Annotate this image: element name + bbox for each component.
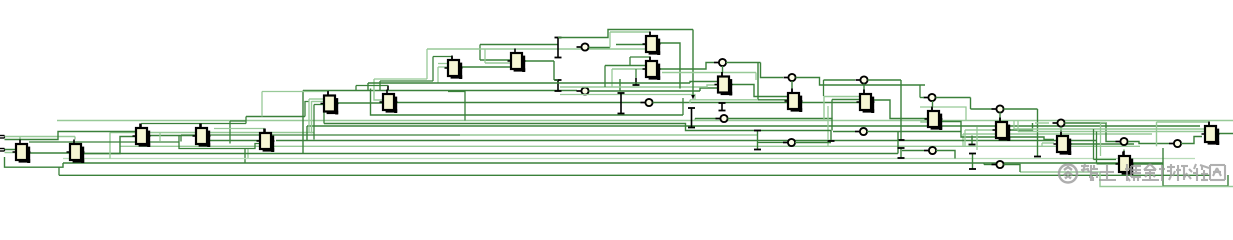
inverter bubble b16	[992, 161, 1004, 168]
wire y44 to tbar	[480, 44, 558, 46]
input terminal group A (left edge)	[0, 136, 5, 139]
wire y90 to b2	[303, 90, 577, 92]
wire y107 light	[920, 107, 966, 121]
wire b14 to C19	[1181, 137, 1202, 144]
riser x620	[619, 79, 621, 91]
wire C1 input a	[5, 149, 17, 151]
wire C3 out to C4	[150, 135, 196, 137]
riser x324	[323, 111, 325, 124]
pin C11 top	[649, 57, 651, 61]
wire C7 pin run	[356, 85, 388, 87]
wire to C2 top	[5, 136, 76, 138]
wire C7 out long y102	[397, 102, 641, 104]
wire y142 left	[29, 141, 179, 143]
component U4	[193, 124, 211, 148]
wire drop to b5	[761, 63, 784, 78]
wire C17 out	[1071, 143, 1134, 145]
pin C6 top	[327, 92, 329, 96]
inverter bubble b14	[1169, 140, 1181, 147]
wire C12 in1	[690, 82, 718, 84]
wire C19 in light a	[1014, 128, 1205, 130]
inverter bubble b12	[1053, 119, 1065, 126]
terminator T8	[719, 103, 726, 111]
inverter bubble b1	[577, 43, 589, 50]
wire C8 pin run	[433, 56, 452, 58]
wire into b6	[824, 79, 856, 81]
wire b5 right	[796, 78, 926, 86]
wire riser x110	[109, 133, 111, 159]
wire C9 in2	[485, 62, 511, 64]
wire b9 out	[867, 131, 961, 133]
component U16	[993, 118, 1011, 142]
riser x380	[379, 81, 381, 91]
terminator v14	[1034, 109, 1041, 157]
wire C1 out to C2	[28, 152, 70, 154]
wire C11 pin run	[630, 56, 650, 58]
inverter bubble b5	[784, 74, 796, 81]
bus wire y135 dark	[181, 134, 460, 136]
riser x965	[964, 130, 966, 146]
wire y83 long	[368, 82, 690, 84]
pin C7 top	[387, 86, 389, 91]
stair corner x305	[305, 102, 309, 117]
pin C18 top	[1123, 151, 1125, 156]
wire C6 in3	[314, 104, 324, 106]
pin C13 top	[791, 89, 793, 94]
component U7	[380, 90, 398, 114]
terminator v8	[754, 131, 761, 150]
wire y146 light long	[120, 145, 1140, 147]
riser x230	[229, 121, 231, 144]
wire b8 out	[795, 142, 831, 144]
drop b12 to C17 pin	[1060, 127, 1062, 132]
wire C14 in2	[832, 99, 860, 101]
terminator v11	[898, 148, 905, 158]
component U18	[1116, 152, 1134, 176]
wire y115 long	[371, 89, 684, 116]
riser x630	[629, 57, 631, 66]
riser x690 light	[689, 100, 691, 103]
wire b2 to C12 in3	[700, 88, 718, 91]
wire y99 light	[690, 99, 758, 101]
terminator T7	[618, 93, 625, 114]
riser x1156	[1156, 122, 1158, 146]
pin C4 top	[200, 124, 202, 129]
wire C6 out to C7	[337, 102, 383, 104]
stair riser x311	[311, 101, 313, 134]
wire C2 out to C3	[82, 137, 136, 154]
watermark juejin logo	[1059, 165, 1077, 183]
component U12	[715, 72, 733, 96]
riser x480	[479, 45, 481, 61]
wire b6 out	[868, 79, 902, 81]
wire into b16	[984, 164, 992, 166]
riser x307	[306, 126, 308, 141]
pin C12 top	[721, 72, 723, 77]
component U10	[643, 32, 661, 56]
wire b13 to b14	[1128, 142, 1169, 144]
bus wire y132 light	[110, 132, 314, 134]
wire b1 out	[589, 47, 611, 49]
wire y121 short	[230, 120, 246, 122]
inverter bubble b10	[924, 94, 936, 101]
wire C8 in2	[438, 66, 448, 68]
drop x1163	[1162, 148, 1164, 186]
pin C16 top	[999, 118, 1001, 123]
wire C7 in2	[374, 79, 383, 100]
riser x828	[827, 106, 829, 146]
wire C16 out up	[1010, 123, 1033, 130]
terminator v12	[969, 136, 976, 145]
terminator T5	[633, 78, 640, 85]
wire C14 in light	[824, 96, 860, 98]
wire C6 in2	[312, 101, 325, 103]
wire b2 out	[589, 90, 701, 92]
terminator T2	[555, 80, 562, 91]
wire riser x356	[355, 86, 357, 91]
riser x756	[755, 73, 757, 81]
wire to C3 input	[5, 132, 137, 140]
inverter bubble b9	[855, 128, 867, 135]
inverter bubble b6	[856, 76, 868, 83]
riser x977	[976, 127, 978, 151]
wire C15 out to C17	[942, 122, 1054, 140]
riser x433	[432, 57, 434, 82]
component U9	[508, 49, 526, 73]
terminator v10	[898, 80, 905, 140]
terminator T4	[688, 108, 695, 128]
drop x1100 light	[1101, 123, 1107, 157]
wire y81	[380, 80, 433, 82]
riser x438	[437, 67, 439, 83]
wire C10 pin run	[610, 31, 650, 33]
wire y72 light	[662, 72, 756, 74]
wire C19 out	[1218, 133, 1233, 135]
wire into b9	[833, 131, 855, 133]
drop C9 out	[553, 61, 555, 80]
drop b5 to C13 pin	[791, 81, 793, 89]
riser x262	[261, 92, 263, 117]
wire x465 drop	[448, 92, 465, 121]
wire C18 in1	[1094, 159, 1117, 161]
pin C5 top	[264, 129, 266, 134]
stair riser x314	[313, 105, 315, 140]
riser x485	[484, 49, 486, 63]
wire y134 light right	[963, 133, 1152, 135]
wire y94 light	[560, 95, 695, 100]
component U2	[67, 140, 85, 164]
wire C11 in1	[605, 65, 646, 67]
wire C11 in2	[612, 68, 646, 70]
wire C9 out	[525, 60, 554, 62]
inverter bubble b13	[1116, 138, 1128, 145]
wire y49 light to C10	[427, 48, 646, 50]
wire C8 in1	[438, 63, 448, 65]
wire C17 in2	[1042, 142, 1054, 144]
riser x1014	[1013, 121, 1015, 130]
stair riser x303	[302, 91, 304, 154]
inverter bubble b11	[992, 105, 1004, 112]
link b16	[983, 163, 985, 165]
tee x59 to y175	[58, 167, 60, 175]
watermark text strokes	[1081, 164, 1225, 181]
wire bottom right	[1163, 175, 1228, 186]
drop x1096	[1096, 132, 1098, 164]
pin C17 top	[1060, 132, 1062, 137]
wire C18 out	[1133, 163, 1163, 165]
riser x245	[244, 149, 246, 164]
wire C1 input b	[5, 152, 17, 154]
wire C9 in1	[480, 59, 511, 61]
riser x427	[426, 49, 428, 79]
riser x824 light	[823, 96, 825, 121]
drop b10 to C15 pin	[932, 101, 934, 107]
jog x695	[694, 119, 696, 121]
wire b11 out	[1004, 108, 1038, 110]
bus wire y175 dark	[59, 174, 1210, 176]
wire into b11	[971, 108, 992, 110]
wire b16 out	[1004, 165, 1021, 173]
wire C10 in2	[616, 44, 646, 46]
wire C18 in2	[1097, 163, 1117, 165]
component U1	[13, 140, 31, 164]
wire y172 light	[1020, 171, 1100, 173]
drop b10 chain	[970, 98, 972, 110]
component U11	[643, 57, 661, 81]
riser x605	[604, 66, 606, 88]
wire b7 out	[728, 119, 833, 131]
wire y79 light	[374, 78, 427, 80]
wire into b15	[902, 150, 924, 152]
wire C6 pin run	[262, 91, 328, 93]
component U14	[857, 90, 875, 114]
bus wire y158 faint	[63, 158, 1195, 160]
pin C19 top	[1208, 122, 1210, 126]
pin C8 top	[451, 57, 453, 61]
terminator v9	[828, 131, 835, 142]
wire C5 pin run	[214, 128, 265, 130]
wire C6 in1	[309, 98, 324, 100]
terminator v13	[969, 154, 976, 170]
wire C3 pin run	[141, 123, 246, 125]
riser x610	[609, 32, 611, 48]
riser x368	[367, 83, 369, 91]
inverter bubble b2	[577, 87, 589, 94]
inverter bubble b7	[716, 115, 728, 122]
bus wire y126 dark	[307, 125, 1200, 127]
drop b3 to C12 pin	[722, 66, 724, 72]
wire drop C4 pin	[245, 117, 247, 124]
link T2	[554, 79, 558, 81]
component U13	[785, 89, 803, 113]
stub above T5	[635, 69, 637, 78]
arrow terminator x693	[691, 95, 695, 100]
wire into b10	[920, 97, 924, 99]
component U5	[257, 129, 275, 153]
wire C4 out to C5	[210, 140, 260, 142]
drop x898	[897, 132, 899, 154]
wire y85 light to C12	[560, 85, 718, 87]
bus wire y135 light part	[460, 134, 758, 136]
riser x823	[823, 80, 825, 96]
riser x612	[611, 69, 613, 87]
wire C15 in2 jog	[921, 121, 928, 123]
wire into b12	[1035, 122, 1049, 124]
wire C13 out to C14	[802, 102, 860, 104]
wire y116 to stair	[246, 116, 305, 118]
drop b13	[1123, 150, 1125, 152]
bus wire y140 dark	[276, 140, 1096, 142]
wire riser x160	[159, 133, 161, 142]
inverter bubble b3	[714, 59, 726, 66]
wire bottom right light	[1100, 172, 1233, 187]
riser x248	[247, 149, 249, 159]
wire b3 out	[726, 62, 761, 64]
wire b12 out to b13	[1065, 123, 1116, 142]
wire C16 in2	[965, 129, 996, 131]
long riser x693	[692, 30, 694, 96]
riser x683	[682, 98, 684, 115]
inverter bubble b4	[641, 99, 653, 106]
wire riser x181	[180, 136, 182, 142]
pin C15 top	[931, 107, 933, 112]
wire into b8	[758, 142, 784, 144]
drop b6 to C14 pin	[863, 84, 865, 90]
bus wire y163 dark	[63, 162, 1163, 164]
bus wire y120 light	[57, 120, 1233, 122]
wire drop C2 pin	[74, 137, 76, 140]
riser x920	[919, 85, 921, 98]
component U6	[321, 91, 339, 115]
riser x963	[962, 134, 964, 146]
riser x1042	[1041, 143, 1043, 146]
riser x832	[831, 100, 833, 119]
wire drop C1 pin	[19, 137, 21, 140]
wire into b7	[695, 118, 717, 120]
component U15	[925, 107, 943, 131]
inverter bubble b15	[924, 147, 936, 154]
wire C14 out to C15	[872, 100, 928, 119]
riser x1018	[1017, 121, 1019, 132]
wire b4 out to C13 in3	[653, 102, 788, 104]
pin C14 top	[863, 90, 865, 95]
wire C19 pin run	[1157, 121, 1210, 123]
terminator T1	[555, 38, 562, 58]
wire b15 out	[936, 151, 955, 159]
wire drop to C13 in2	[758, 63, 788, 100]
component U19	[1202, 122, 1220, 146]
wire jog C4 to C5	[179, 136, 260, 149]
pin C10 top	[649, 32, 651, 36]
component U8	[445, 56, 463, 80]
wire C10 out	[660, 43, 680, 89]
inverter bubble b8	[783, 139, 795, 146]
wire b10 out	[936, 97, 971, 99]
wire loop under C1 C2	[5, 157, 64, 167]
pin C3 top	[140, 124, 142, 129]
bus wire y153 dark	[82, 153, 898, 155]
stair riser x309	[308, 99, 310, 133]
drop b11 to C16 pin	[999, 113, 1001, 118]
wire C8 out to C9	[460, 66, 511, 68]
component U17	[1054, 132, 1072, 156]
input terminal group B (left edge)	[0, 149, 5, 152]
wire C11 out to b3	[660, 63, 714, 70]
wire peak top	[558, 30, 693, 38]
drop x1093	[1093, 129, 1095, 160]
component U3	[133, 124, 151, 148]
wire C12 out to C13	[732, 85, 788, 97]
wire C19 in light b	[1018, 131, 1205, 133]
wire y123 step y130	[324, 124, 831, 131]
